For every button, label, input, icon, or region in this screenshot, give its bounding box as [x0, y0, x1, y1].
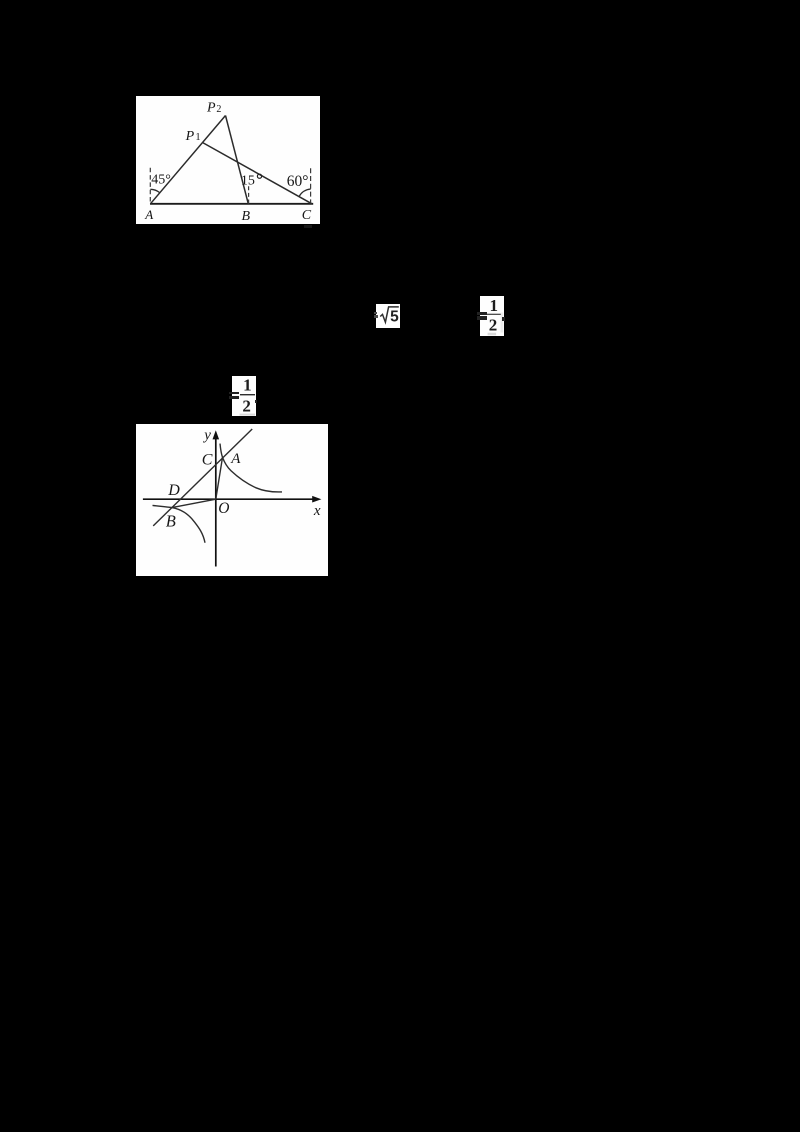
segment O to A	[216, 457, 223, 499]
svg-text:O: O	[218, 500, 229, 517]
x-axis arrowhead	[312, 496, 321, 503]
bottom smudge	[240, 414, 255, 416]
bottom smudge	[488, 333, 497, 336]
fraction bar	[240, 394, 255, 395]
svg-text:C: C	[302, 208, 312, 223]
faint remnant rect below figure 1	[304, 225, 312, 228]
svg-text:P: P	[206, 101, 216, 116]
svg-text:y: y	[202, 428, 211, 444]
svg-text:A: A	[144, 207, 153, 222]
wire line P2 to B	[226, 116, 249, 204]
baseline AC	[150, 203, 313, 205]
hyperbola lower branch	[153, 505, 206, 542]
svg-text:2: 2	[489, 315, 498, 334]
inline math 1/2 box (right)	[480, 296, 504, 336]
svg-text:C: C	[202, 452, 213, 469]
svg-text:2: 2	[216, 104, 221, 115]
fraction bar	[486, 314, 501, 315]
y-axis arrowhead	[213, 430, 220, 439]
equals sign overlapping left edge	[477, 312, 487, 315]
svg-text:1: 1	[195, 132, 200, 143]
dashed vertical at B	[248, 186, 250, 204]
x-axis	[143, 498, 315, 500]
svg-text:A: A	[230, 451, 241, 467]
svg-text:5: 5	[390, 308, 399, 325]
figure 1: triangle diagram with A,B,C,P1,P2	[136, 96, 320, 224]
y-axis	[215, 437, 217, 567]
dashed vertical at A	[149, 168, 151, 204]
angle arc at A	[150, 189, 159, 193]
equals remnant left of sqrt5	[374, 312, 377, 314]
line through B D C A	[153, 429, 252, 526]
comma at right edge	[255, 400, 258, 404]
equals sign overlapping left edge	[229, 392, 239, 394]
svg-text:x: x	[313, 503, 321, 519]
comma at right edge	[502, 317, 505, 320]
radical sign	[380, 307, 399, 322]
degree circle of 15	[257, 174, 261, 178]
inline math sqrt(5) box	[376, 304, 400, 328]
wire line P1 to C	[203, 143, 312, 204]
svg-text:P: P	[185, 129, 195, 144]
inline math =1/2 box (left, second)	[232, 376, 256, 416]
svg-text:2: 2	[242, 396, 251, 415]
svg-text:1: 1	[490, 296, 499, 315]
svg-text:1: 1	[243, 376, 252, 395]
svg-text:15: 15	[241, 174, 255, 189]
svg-text:B: B	[242, 209, 251, 224]
angle arc at C	[299, 189, 311, 197]
hyperbola upper branch	[220, 444, 282, 492]
dashed vertical at C	[310, 168, 312, 203]
wire line A to P2	[150, 116, 225, 204]
segment O to B	[172, 499, 216, 507]
svg-text:D: D	[167, 482, 180, 499]
svg-text:B: B	[166, 512, 176, 531]
svg-text:60°: 60°	[287, 173, 309, 190]
light gray column right	[501, 313, 504, 333]
figure 2: hyperbola and line on coordinate axes	[136, 424, 328, 576]
svg-text:45°: 45°	[151, 172, 171, 187]
